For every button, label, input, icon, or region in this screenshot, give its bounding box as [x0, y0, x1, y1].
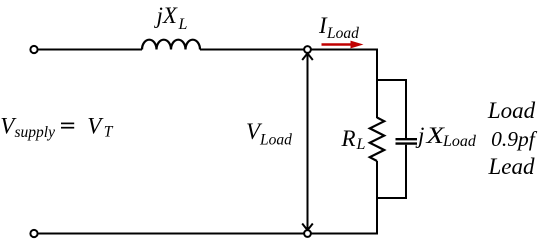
VLoad measurement line — [307, 54, 309, 231]
arrowhead up — [302, 53, 313, 60]
svg-text:L: L — [178, 16, 188, 33]
svg-text:Load: Load — [259, 131, 292, 148]
svg-text:Load: Load — [442, 133, 477, 150]
node top — [304, 46, 311, 53]
right branch vertical bottom — [376, 161, 378, 235]
capacitor plates — [396, 138, 418, 140]
svg-text:T: T — [104, 124, 114, 141]
svg-text:jX: jX — [154, 3, 178, 28]
resistor RL — [370, 118, 384, 162]
svg-text:Load: Load — [326, 25, 359, 42]
bottom wire — [38, 233, 305, 235]
svg-text:Load: Load — [487, 98, 536, 123]
wire node to corner — [311, 49, 378, 51]
node bottom — [304, 230, 311, 237]
right branch vertical top — [376, 49, 378, 119]
capacitor branch top — [377, 80, 406, 138]
terminal bottom-left — [30, 230, 37, 237]
inductor jXL — [142, 40, 200, 50]
wire inductor to node — [200, 49, 305, 51]
bottom wire right — [311, 233, 378, 235]
current arrow (red) — [322, 43, 353, 45]
svg-text:supply: supply — [15, 124, 56, 141]
svg-text:V: V — [87, 113, 104, 138]
svg-text:0.9pf: 0.9pf — [491, 127, 538, 151]
svg-text:Lead: Lead — [488, 154, 536, 179]
terminal top-left — [30, 46, 37, 53]
arrowhead down — [302, 224, 313, 231]
wire top-left to inductor — [38, 49, 142, 51]
svg-text:R: R — [341, 126, 356, 151]
svg-text:L: L — [356, 136, 366, 153]
capacitor branch bottom — [377, 145, 406, 198]
